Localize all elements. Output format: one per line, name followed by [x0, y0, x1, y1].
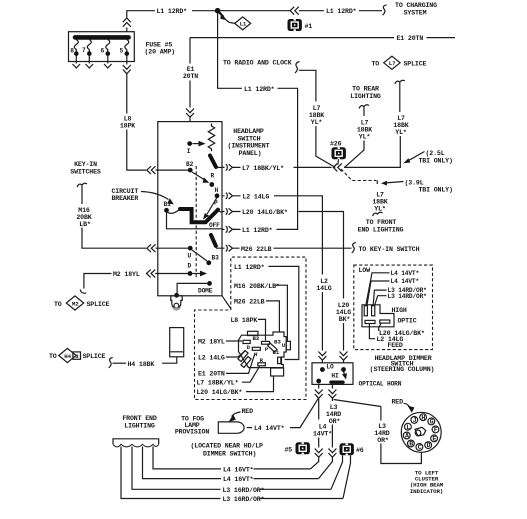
wire L1 into connector — [269, 266, 299, 359]
node case ground — [174, 293, 179, 298]
svg-text:J: J — [413, 417, 417, 424]
svg-text:(2.5L: (2.5L — [426, 150, 445, 157]
svg-text:YL*: YL* — [395, 129, 407, 136]
wire comb tooth 4 to L4 line a — [153, 447, 221, 469]
svg-text:TO: TO — [372, 60, 380, 67]
svg-text:HIGH: HIGH — [392, 307, 407, 314]
svg-text:8: 8 — [70, 47, 74, 54]
note (3.9L TBI ONLY) with arrow — [381, 179, 453, 193]
svg-text:F: F — [434, 427, 438, 434]
wire fuse top to L1 bus — [123, 11, 155, 32]
lead dimmer L4 1 — [366, 273, 390, 305]
grommet #1 — [288, 19, 313, 31]
svg-text:INDICATOR): INDICATOR) — [410, 488, 443, 495]
break on L7 junction line — [333, 163, 342, 171]
svg-text:L7: L7 — [389, 60, 396, 67]
front end lighting connector comb — [113, 439, 159, 447]
svg-text:D: D — [188, 263, 192, 270]
svg-text:14LG: 14LG — [336, 309, 351, 316]
svg-text:H4 18BK: H4 18BK — [128, 361, 155, 368]
svg-text:(3.9L: (3.9L — [405, 179, 424, 186]
break on M2 feed — [146, 270, 188, 278]
dashed linkage line inside switch — [195, 166, 197, 279]
svg-text:YL*: YL* — [359, 134, 371, 141]
dimmer switch dashed box LOW — [354, 265, 433, 350]
wire from grommet 6 to L3 line b — [343, 456, 351, 499]
svg-text:L: L — [406, 424, 410, 431]
svg-text:L4 14VT*: L4 14VT* — [391, 278, 420, 285]
lead L20 to connector lug — [246, 377, 274, 392]
svg-text:M26 22LB: M26 22LB — [241, 246, 272, 253]
connector bottom-right lug — [271, 368, 284, 376]
svg-text:R: R — [211, 173, 215, 180]
svg-text:20BK: 20BK — [76, 214, 91, 221]
svg-text:OR*: OR* — [377, 437, 389, 444]
wire L3 line a to grommet 6 — [260, 488, 332, 490]
svg-text:M16 20BK/LB*: M16 20BK/LB* — [234, 283, 280, 290]
wire L1 to junction — [192, 10, 216, 12]
wire fog L4 to riser — [290, 398, 319, 428]
svg-text:L3 16RD/OR*: L3 16RD/OR* — [223, 487, 265, 494]
svg-text:M2 18YL: M2 18YL — [198, 338, 225, 345]
wire L3 riser to lower break — [319, 425, 337, 479]
dimmer switch body — [362, 305, 394, 327]
wire-end curl L7 splice drop — [395, 80, 405, 112]
wire L2 to vertical — [274, 196, 322, 275]
svg-text:18BK: 18BK — [372, 199, 387, 206]
svg-text:OPTIC: OPTIC — [398, 318, 417, 325]
svg-text:LB*: LB* — [79, 221, 91, 228]
arrow from I — [193, 143, 201, 145]
svg-text:BREAKER: BREAKER — [112, 195, 139, 202]
svg-text:LIGHTING: LIGHTING — [350, 93, 381, 100]
svg-text:14VT*: 14VT* — [313, 431, 332, 438]
wire break to label — [299, 10, 324, 12]
wire M26 to key-in curl — [274, 247, 352, 249]
svg-text:L20: L20 — [338, 302, 350, 309]
svg-text:L1 12RD*: L1 12RD* — [234, 264, 265, 271]
output connector L7 — [222, 164, 240, 170]
svg-text:14LG: 14LG — [316, 285, 331, 292]
svg-text:L20 14LG/BK*: L20 14LG/BK* — [242, 209, 288, 216]
svg-text:#6: #6 — [356, 447, 364, 454]
break on wire below fuse 5 — [123, 65, 131, 74]
fuse element 5 — [120, 40, 130, 65]
break on B2 feed — [147, 166, 156, 174]
wire L1 junction down to radio tap — [218, 13, 242, 88]
wire L4 line b to riser — [254, 478, 319, 480]
svg-text:H: H — [215, 187, 219, 194]
arrow on contact — [207, 198, 217, 215]
svg-text:(STEERING COLUMN): (STEERING COLUMN) — [370, 366, 435, 373]
svg-text:L7: L7 — [376, 192, 384, 199]
tap to L1 splice — [218, 11, 223, 16]
wire dome to case ground — [177, 283, 207, 294]
svg-text:SPLICE: SPLICE — [83, 353, 106, 360]
svg-text:G: G — [430, 419, 434, 426]
svg-text:HEADLAMP: HEADLAMP — [233, 128, 264, 135]
pin dimmer vertical 1 — [364, 306, 367, 316]
svg-text:14RD: 14RD — [374, 430, 389, 437]
svg-text:(20 AMP): (20 AMP) — [145, 49, 175, 56]
svg-text:(INSTRUMENT: (INSTRUMENT — [228, 143, 270, 150]
curl M2 splice — [80, 290, 86, 294]
wire junction to break — [220, 10, 290, 12]
wire E1 down to switch — [189, 38, 191, 64]
svg-text:DOME: DOME — [198, 287, 213, 294]
wire L7 label to junction break — [294, 166, 332, 168]
wire L7 splice branch down to junction line — [344, 136, 400, 167]
svg-text:7: 7 — [82, 47, 86, 54]
svg-text:E1 20TN: E1 20TN — [198, 371, 225, 378]
lead dimmer L4 2 — [367, 281, 390, 305]
wire-end curl rear lighting — [359, 105, 369, 116]
svg-text:B2: B2 — [186, 161, 194, 168]
splice symbol M2 — [66, 296, 83, 310]
splice symbol L7 — [384, 56, 400, 69]
svg-text:L3 14RD/OR*: L3 14RD/OR* — [388, 293, 428, 300]
svg-text:A: A — [405, 433, 409, 440]
lead M2 to pin — [226, 340, 242, 342]
dashed wire 3.9L TBI — [341, 169, 377, 181]
svg-text:OR*: OR* — [329, 418, 341, 425]
svg-text:(LOCATED NEAR HD/LP: (LOCATED NEAR HD/LP — [191, 443, 264, 450]
svg-text:TO FRONT: TO FRONT — [366, 219, 397, 226]
node wafer dome contact — [206, 260, 211, 265]
wire H4 18BK to terminal — [162, 357, 177, 363]
ground pigtail lug — [171, 296, 182, 309]
wire to charging curl — [359, 10, 382, 12]
svg-text:14RD: 14RD — [326, 411, 341, 418]
svg-text:B3: B3 — [274, 338, 281, 345]
svg-text:SYSTEM: SYSTEM — [404, 10, 427, 17]
headlamp switch box — [158, 122, 222, 296]
svg-text:L3: L3 — [330, 404, 338, 411]
svg-text:RED: RED — [392, 398, 404, 405]
svg-text:H: H — [421, 414, 425, 421]
node LO right — [341, 367, 346, 372]
svg-text:L7 18BK/YL*: L7 18BK/YL* — [242, 165, 284, 172]
arrow from D — [193, 273, 202, 275]
rheostat resistor — [208, 124, 214, 152]
svg-text:18BK: 18BK — [357, 127, 372, 134]
wire-end curl front lighting — [373, 212, 383, 216]
leader RED to cluster — [404, 403, 410, 406]
note (2.5L TBI ONLY) with arrow — [403, 150, 452, 164]
svg-text:END LIGHTING: END LIGHTING — [358, 227, 404, 234]
wire M16 into connector — [275, 285, 287, 341]
pin dimmer horizontal 1 — [365, 320, 375, 323]
svg-text:L2: L2 — [320, 278, 328, 285]
optical horn box — [312, 363, 353, 385]
leader RED to fog connector — [232, 412, 241, 417]
pin H — [252, 347, 260, 350]
wire curl to H4 label — [113, 362, 127, 364]
svg-text:L1 12RD*: L1 12RD* — [244, 86, 275, 93]
node LO left — [320, 367, 325, 372]
svg-text:20TN: 20TN — [183, 73, 198, 80]
svg-text:PANEL): PANEL) — [239, 150, 262, 157]
wire L4 riser to lower break — [311, 438, 323, 469]
splice symbol H4 with 3 box — [59, 348, 81, 362]
svg-text:LIGHTING: LIGHTING — [124, 422, 155, 429]
svg-text:L1 12RD*: L1 12RD* — [242, 227, 273, 234]
wire L8 label to headlamp switch B2 — [127, 130, 146, 171]
lead dimmer L3 1 — [373, 290, 386, 305]
terminal DOME — [207, 281, 212, 286]
svg-text:LOW: LOW — [359, 267, 371, 274]
wire L3 below horn with break — [328, 384, 336, 401]
wire L2 down to optical horn — [318, 292, 326, 363]
svg-text:L7: L7 — [313, 105, 321, 112]
connector top bump — [248, 331, 259, 335]
wire rear branch to junction — [345, 141, 365, 168]
wire E1 20TN horizontal — [190, 37, 394, 39]
svg-text:CIRCUIT: CIRCUIT — [112, 188, 139, 195]
lead L20 pin — [379, 324, 381, 332]
pin P (diagonal) — [268, 343, 277, 352]
wire L1 radio branch to switch OFF terminal — [233, 88, 298, 229]
wire comb tooth 2 to L3 line a — [132, 447, 221, 490]
svg-text:TO CHARGING: TO CHARGING — [395, 2, 437, 9]
svg-text:BK*: BK* — [339, 316, 351, 323]
ground terminal block — [170, 328, 184, 357]
link B1 to contact — [167, 210, 180, 214]
wire L3 cluster branch — [380, 407, 382, 421]
wire B1 to OFF terminal — [167, 212, 223, 229]
pin M2 — [243, 340, 250, 343]
connector detail dashed box — [195, 257, 307, 399]
svg-text:YL*: YL* — [374, 206, 386, 213]
arrow LO right to HI — [344, 372, 345, 375]
wire-end curl key-in — [77, 183, 87, 204]
svg-text:U: U — [188, 253, 192, 260]
svg-text:FRONT END: FRONT END — [122, 415, 156, 422]
fuse block FUSE #5 — [69, 32, 135, 62]
break on L1 bus — [290, 7, 299, 15]
svg-text:L1: L1 — [240, 21, 247, 28]
svg-text:KEY-IN: KEY-IN — [74, 161, 97, 168]
tap L3 to cluster branch — [334, 400, 381, 407]
pin L2 (diagonal) — [238, 351, 248, 362]
switch to detail box diagonal — [222, 296, 231, 309]
wire E1 label to end — [427, 37, 456, 39]
svg-text:SWITCH: SWITCH — [238, 135, 261, 142]
svg-text:L7 18BK/YL*: L7 18BK/YL* — [197, 379, 239, 386]
connector right tall pin — [286, 341, 290, 350]
output connector L2 — [222, 193, 240, 199]
wire L4 line a to riser — [254, 468, 311, 470]
wire L4 below horn with break — [315, 384, 323, 419]
svg-text:FUSE #5: FUSE #5 — [146, 42, 173, 49]
grommet #6 — [340, 443, 364, 455]
connector body (switch connector) — [239, 332, 287, 368]
wire contact top to L20 output — [218, 210, 222, 212]
wire fog connector L4 — [247, 427, 252, 429]
svg-text:M2 18YL: M2 18YL — [113, 271, 140, 278]
svg-text:OFF: OFF — [209, 222, 220, 229]
splice symbol L1 — [235, 17, 251, 30]
lead dimmer L3 2 — [375, 296, 387, 305]
curl to key-in switch — [352, 243, 356, 253]
svg-text:RED: RED — [242, 408, 254, 415]
contact R (thick) — [210, 156, 216, 168]
svg-text:L8: L8 — [124, 116, 132, 123]
svg-text:M2: M2 — [72, 300, 79, 307]
svg-text:E1: E1 — [187, 66, 195, 73]
fog lamp provision connector — [218, 422, 244, 433]
svg-text:B: B — [409, 441, 413, 448]
wire B3 to M26 output — [216, 246, 222, 248]
wire M2 18YL feed — [84, 274, 112, 289]
svg-text:18BK: 18BK — [309, 112, 324, 119]
wire from grommet 6 to L3 line a — [331, 456, 343, 490]
svg-text:PROVISION: PROVISION — [175, 429, 209, 436]
svg-text:L4: L4 — [319, 424, 327, 431]
svg-text:SPLICE: SPLICE — [87, 301, 110, 308]
svg-text:TBI ONLY): TBI ONLY) — [419, 187, 453, 194]
svg-text:LO: LO — [326, 364, 334, 371]
svg-text:C: C — [418, 444, 422, 451]
svg-text:B2: B2 — [253, 335, 260, 342]
svg-text:6: 6 — [101, 48, 105, 55]
fuse element 8 — [70, 40, 80, 69]
output connector M26 — [222, 245, 239, 251]
svg-text:E: E — [432, 436, 436, 443]
pin R — [258, 363, 266, 366]
svg-text:TO: TO — [49, 353, 57, 360]
terminal P — [215, 193, 220, 198]
svg-text:TBI ONLY): TBI ONLY) — [419, 157, 453, 164]
svg-text:L7: L7 — [361, 120, 369, 127]
svg-text:18BK: 18BK — [393, 122, 408, 129]
curl radio and clock — [295, 62, 300, 74]
wire L7 radio branch to junction — [316, 126, 335, 167]
svg-text:L4 16VT*: L4 16VT* — [223, 467, 254, 474]
terminal I — [187, 141, 192, 146]
svg-text:5: 5 — [120, 48, 124, 55]
svg-text:TO: TO — [54, 301, 62, 308]
wire R contact to L7 output — [216, 166, 222, 168]
wire comb tooth 1 to L3 line b — [121, 447, 221, 499]
contact B1-P (thick) — [180, 209, 218, 222]
lead L2 to pin — [226, 351, 246, 358]
svg-text:L4 14VT*: L4 14VT* — [254, 425, 285, 432]
wire cluster branch to connector — [381, 444, 422, 464]
svg-text:OPTICAL HORN: OPTICAL HORN — [359, 381, 402, 388]
wire L20 down to optical horn — [340, 323, 348, 363]
arrow B2 to H — [192, 172, 204, 180]
svg-text:B3: B3 — [212, 255, 220, 262]
terminal U — [188, 246, 193, 251]
svg-text:TO KEY-IN SWITCH: TO KEY-IN SWITCH — [359, 246, 420, 253]
svg-text:FEED: FEED — [388, 342, 403, 349]
svg-text:L2 14LG: L2 14LG — [198, 354, 225, 361]
wire radio tap down (L7 18BK YL*) — [299, 70, 316, 101]
svg-text:TO REAR: TO REAR — [352, 85, 379, 92]
curl to charging system — [383, 5, 387, 15]
svg-text:D: D — [427, 442, 431, 449]
wire L8 into connector — [258, 319, 266, 340]
svg-text:L3 16RD/OR*: L3 16RD/OR* — [223, 496, 265, 503]
output connector L20 — [222, 208, 240, 214]
svg-text:L7: L7 — [397, 115, 405, 122]
svg-text:L2 14LG: L2 14LG — [243, 193, 270, 200]
wire L3 line b to grommet 6 — [260, 498, 344, 500]
svg-text:L1 12RD*: L1 12RD* — [157, 8, 188, 15]
svg-text:H4: H4 — [64, 353, 71, 360]
svg-text:#26: #26 — [330, 141, 342, 148]
fuse element 7 — [82, 40, 93, 69]
svg-text:L1 12RD*: L1 12RD* — [326, 8, 357, 15]
node L1 junction — [215, 8, 221, 14]
grommet #26 — [330, 141, 346, 165]
svg-text:SWITCHES: SWITCHES — [70, 169, 101, 176]
pin dimmer horizontal 2 — [380, 320, 390, 323]
fuse element 6 — [101, 40, 112, 69]
svg-text:#1: #1 — [305, 23, 313, 30]
wire E1 continues with break into switch — [186, 81, 194, 122]
svg-text:M16: M16 — [78, 207, 90, 214]
svg-text:18PK: 18PK — [120, 123, 135, 130]
svg-text:B1: B1 — [273, 349, 280, 356]
svg-text:L20 14LG/BK*: L20 14LG/BK* — [197, 389, 243, 396]
lead L7 to pin R — [242, 367, 260, 383]
terminal H — [209, 182, 214, 187]
pin L8 — [262, 341, 270, 344]
svg-text:SPLICE: SPLICE — [404, 60, 427, 67]
svg-text:L3: L3 — [378, 423, 386, 430]
wire into B2 — [156, 169, 190, 171]
output connector L1 — [222, 226, 236, 232]
wire M26 into connector — [266, 301, 279, 332]
link U to wafer dot — [192, 250, 207, 261]
svg-text:HI: HI — [331, 373, 339, 380]
contact HI (thick) — [331, 381, 343, 384]
wire comb tooth 3 to L4 line b — [143, 447, 222, 479]
svg-text:#5: #5 — [285, 446, 293, 453]
wire M16 to switch U — [82, 228, 146, 249]
wire L20 to vertical — [299, 212, 344, 299]
svg-text:YL*: YL* — [311, 119, 323, 126]
svg-text:I: I — [187, 148, 191, 155]
break on M16 feed — [147, 244, 156, 252]
svg-text:DIMMER SWITCH): DIMMER SWITCH) — [203, 450, 256, 457]
svg-text:M26 22LB: M26 22LB — [234, 298, 265, 305]
pin U (vertical) — [278, 357, 281, 363]
cluster connector circle — [401, 412, 441, 452]
svg-text:TO RADIO AND CLOCK: TO RADIO AND CLOCK — [223, 60, 292, 67]
svg-text:L4 14VT*: L4 14VT* — [391, 270, 420, 277]
lead L2 pin — [369, 324, 375, 339]
wire L8 18PK fuse to label — [126, 74, 128, 114]
leader circuit breaker to B1 — [141, 192, 169, 200]
svg-text:E1 20TN: E1 20TN — [397, 35, 424, 42]
grommet #5 — [285, 442, 310, 454]
lead E1 to pin — [226, 353, 255, 373]
pin E1 (diagonal) — [241, 357, 251, 368]
node HI left — [316, 379, 321, 384]
pin dimmer vertical 2 — [372, 306, 375, 316]
svg-text:L4 16VT*: L4 16VT* — [223, 476, 254, 483]
contact B3 (thick) — [211, 235, 216, 246]
svg-text:L8 18PK: L8 18PK — [231, 317, 258, 324]
